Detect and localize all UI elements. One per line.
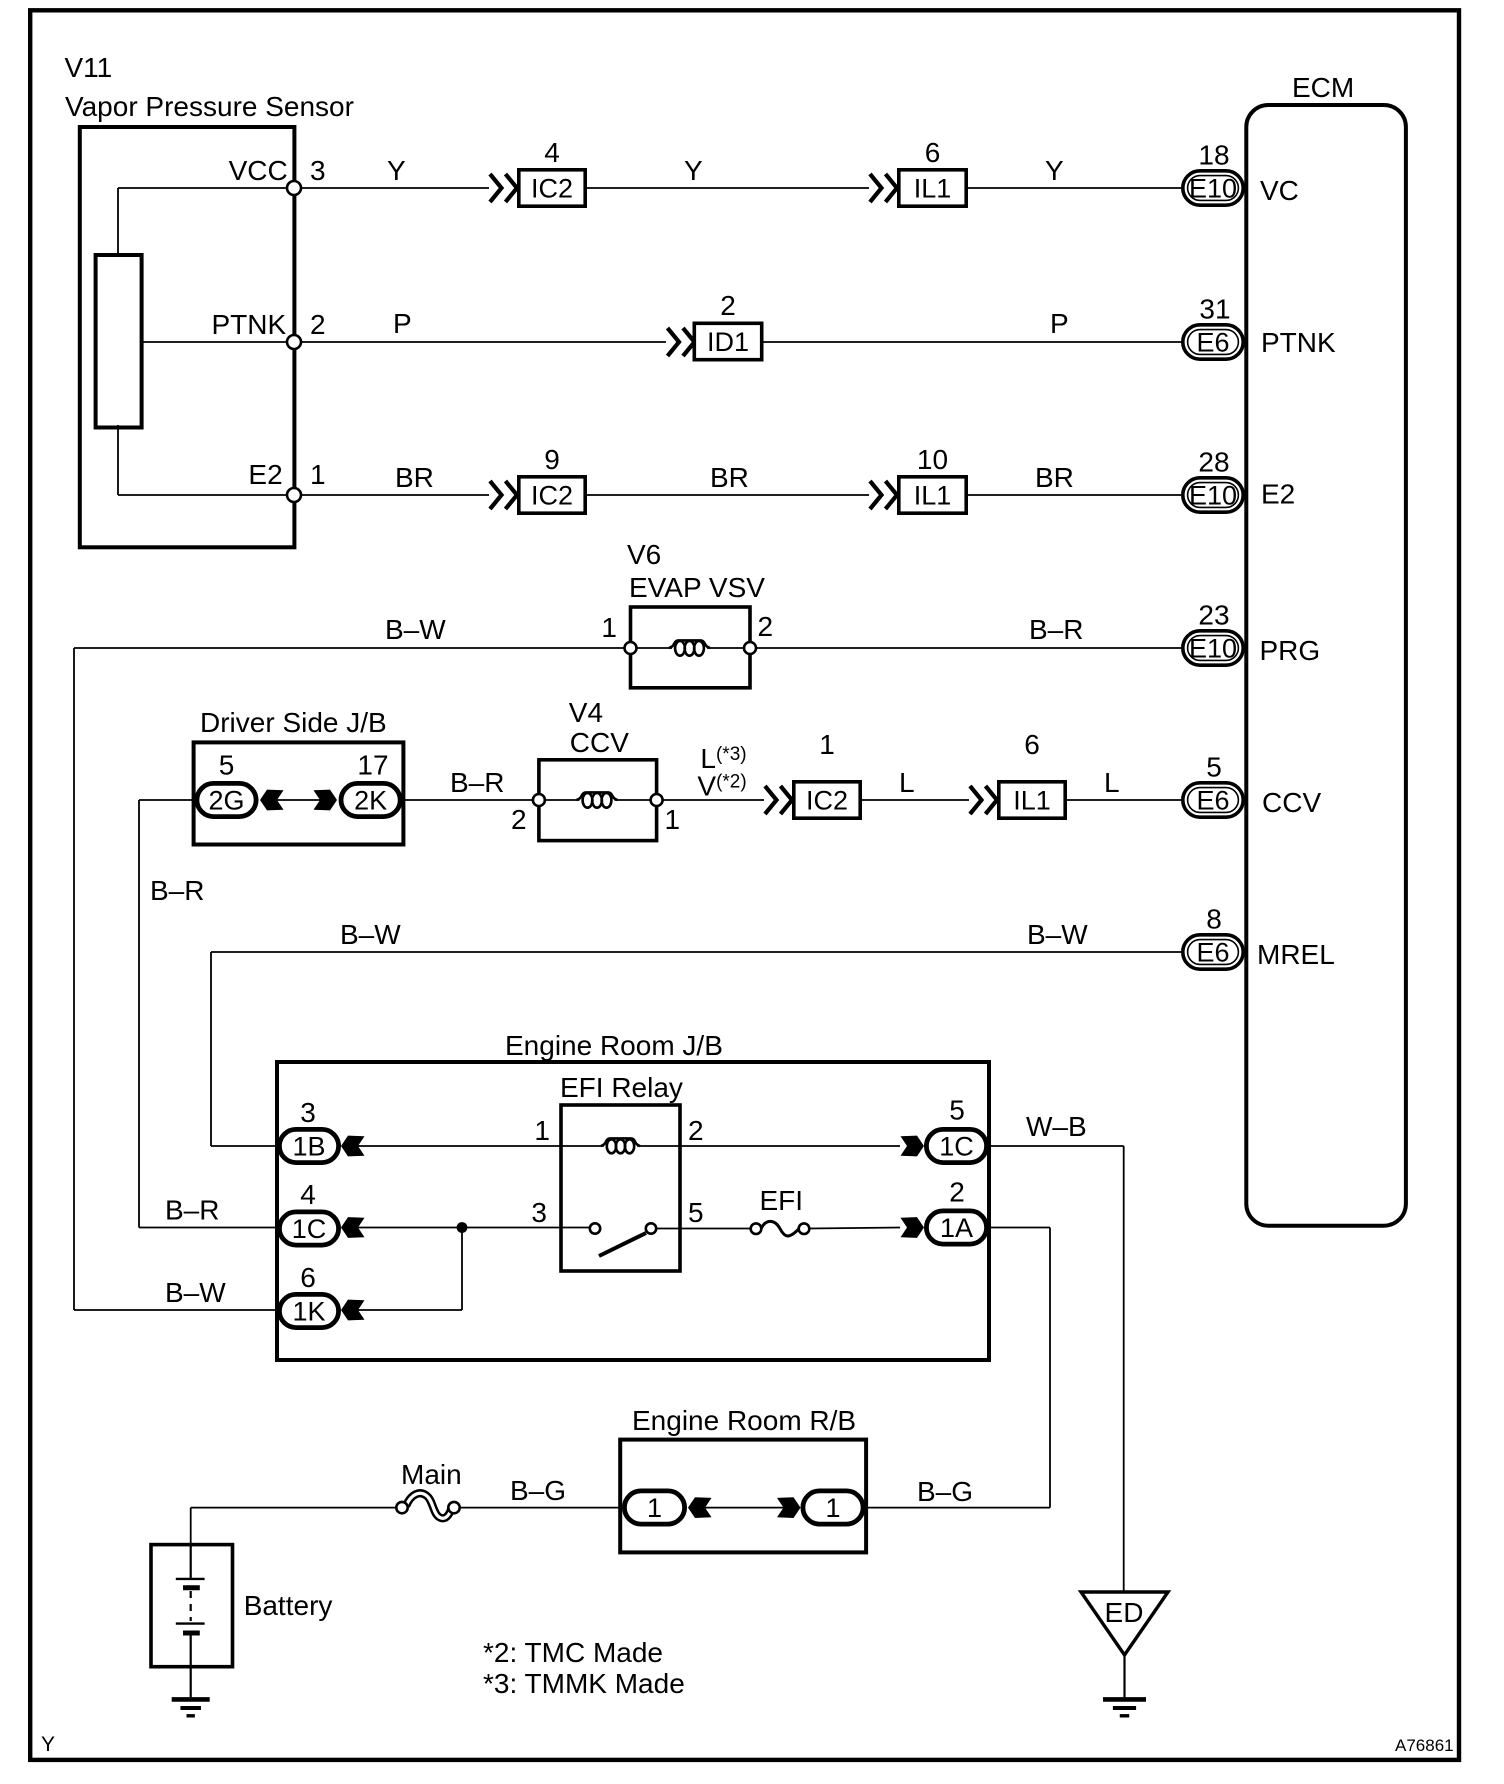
svg-text:1: 1: [825, 1493, 840, 1523]
arrow: [777, 1497, 801, 1518]
wire: [587, 494, 869, 496]
splice IL1 arrows: [870, 481, 897, 509]
svg-text:2K: 2K: [354, 786, 387, 816]
wire: [1123, 1655, 1125, 1697]
footnote *2: [483, 1637, 663, 1668]
svg-text:CCV: CCV: [1262, 787, 1321, 818]
svg-text:1: 1: [310, 459, 326, 490]
label E2: [1261, 479, 1295, 510]
wire: [358, 1227, 590, 1229]
svg-text:*3: TMMK Made: *3: TMMK Made: [483, 1668, 685, 1699]
wire: [139, 799, 195, 801]
pin 2: [720, 290, 736, 321]
svg-text:IL1: IL1: [914, 481, 952, 511]
svg-text:P: P: [1050, 308, 1069, 339]
wire: [73, 648, 75, 1310]
wire: [968, 187, 1181, 189]
label VC: [1260, 175, 1299, 206]
splice IL1 arrows: [970, 786, 997, 814]
svg-text:B–W: B–W: [385, 614, 446, 645]
svg-text:1: 1: [534, 1115, 550, 1146]
svg-text:B–R: B–R: [150, 875, 204, 906]
label B-G: [510, 1475, 566, 1506]
svg-text:A76861: A76861: [1395, 1736, 1454, 1755]
wire: [118, 425, 294, 495]
VSV V6 label: [627, 539, 765, 603]
svg-text:5: 5: [688, 1197, 704, 1228]
svg-text:B–R: B–R: [165, 1195, 219, 1226]
CCV V4 label: [569, 697, 629, 758]
wire: [587, 187, 869, 189]
label L: [899, 767, 915, 798]
wire: [809, 1228, 900, 1229]
label Y: [387, 155, 406, 186]
ED triangle: [1081, 1592, 1168, 1655]
wire: [460, 1507, 622, 1509]
pin 2: [949, 1177, 965, 1208]
svg-text:Y: Y: [41, 1733, 55, 1756]
pin 17: [357, 749, 388, 780]
svg-text:5: 5: [219, 749, 235, 780]
label P: [393, 308, 412, 339]
connector 1B: [279, 1129, 338, 1162]
wire: [358, 1309, 462, 1311]
pin 3: [310, 155, 326, 186]
svg-text:BR: BR: [395, 462, 434, 493]
wire: [142, 341, 294, 343]
label BR: [710, 462, 749, 493]
label ED: [1105, 1597, 1144, 1628]
pin 1: [819, 729, 835, 760]
pin 6: [1024, 729, 1040, 760]
node V4 pin 1: [651, 794, 663, 806]
wire: [403, 799, 539, 801]
wire: [118, 188, 294, 257]
svg-text:MREL: MREL: [1257, 939, 1335, 970]
connector IL1: [999, 782, 1065, 818]
svg-text:Y: Y: [387, 155, 406, 186]
splice IC2 arrows: [490, 481, 517, 509]
wire: [358, 1145, 561, 1147]
label VCC: [229, 155, 288, 186]
wire: [210, 952, 212, 1146]
connector E10 E2: [1183, 478, 1243, 512]
junction dot: [457, 1222, 468, 1233]
svg-text:E6: E6: [1196, 938, 1229, 968]
wire: [301, 187, 489, 189]
svg-text:IL1: IL1: [1013, 786, 1051, 816]
wire: [211, 951, 1181, 953]
connector 1C: [926, 1129, 986, 1162]
svg-text:10: 10: [917, 444, 948, 475]
label EFI: [760, 1185, 804, 1216]
svg-text:E10: E10: [1189, 481, 1237, 511]
connector 1 (left): [624, 1491, 684, 1524]
pin 10: [917, 444, 948, 475]
svg-text:B–W: B–W: [340, 919, 401, 950]
svg-text:PTNK: PTNK: [1261, 327, 1336, 358]
svg-text:23: 23: [1198, 600, 1229, 631]
CCV V4 box: [539, 760, 657, 841]
svg-text:Engine Room R/B: Engine Room R/B: [632, 1405, 856, 1436]
Engine Room J/B box: [277, 1062, 989, 1360]
svg-text:Main: Main: [401, 1459, 462, 1490]
arrow: [341, 1217, 365, 1238]
svg-text:B–R: B–R: [1029, 614, 1083, 645]
wire: [989, 1227, 1050, 1229]
wire: [989, 1145, 1124, 1147]
pin 5: [1206, 752, 1222, 783]
wire: [74, 647, 631, 649]
fuse EFI: [751, 1221, 810, 1236]
label B-R: [1029, 614, 1083, 645]
pin 18: [1198, 140, 1229, 171]
pin 2: [688, 1115, 704, 1146]
battery box: [151, 1545, 233, 1667]
svg-text:31: 31: [1199, 294, 1230, 325]
svg-text:VC: VC: [1260, 175, 1299, 206]
pin 31: [1199, 294, 1230, 325]
svg-text:28: 28: [1198, 447, 1229, 478]
svg-text:L: L: [1104, 767, 1120, 798]
EFI Relay label: [560, 1072, 683, 1103]
wire: [862, 799, 969, 801]
svg-text:Battery: Battery: [244, 1590, 333, 1621]
svg-text:1A: 1A: [940, 1213, 973, 1243]
svg-text:1K: 1K: [292, 1297, 325, 1327]
svg-text:IC2: IC2: [531, 174, 573, 204]
battery label: [244, 1590, 333, 1621]
svg-text:1: 1: [601, 612, 617, 643]
pin 3: [531, 1197, 547, 1228]
svg-text:E10: E10: [1189, 174, 1237, 204]
label PTNK: [1261, 327, 1336, 358]
wire: [705, 1507, 784, 1509]
svg-text:P: P: [393, 308, 412, 339]
label B-W: [340, 919, 401, 950]
wire: [680, 1145, 900, 1147]
wire: [74, 1309, 277, 1311]
svg-text:B–W: B–W: [165, 1277, 226, 1308]
svg-text:2: 2: [949, 1177, 965, 1208]
connector 1K: [279, 1294, 338, 1327]
VSV V6 box: [631, 607, 751, 688]
arrow: [341, 1136, 365, 1157]
pin 4: [300, 1179, 316, 1210]
Driver Side J/B box: [194, 742, 404, 844]
svg-text:2: 2: [758, 611, 774, 642]
wire: [539, 799, 657, 801]
label B-W: [165, 1277, 226, 1308]
pin 1: [601, 612, 617, 643]
arrow: [341, 1300, 365, 1321]
wire: [656, 1228, 751, 1230]
svg-text:1: 1: [819, 729, 835, 760]
page code Y: [41, 1733, 55, 1756]
label W-B: [1026, 1111, 1087, 1142]
svg-text:E2: E2: [1261, 479, 1295, 510]
label B-R: [165, 1195, 219, 1226]
svg-text:VCC: VCC: [229, 155, 288, 186]
battery dashed link: [190, 1591, 192, 1621]
svg-text:EFI Relay: EFI Relay: [560, 1072, 683, 1103]
wire: [190, 1508, 192, 1545]
connector IC2: [519, 170, 585, 206]
connector ID1: [694, 323, 761, 359]
svg-text:E6: E6: [1196, 786, 1229, 816]
svg-text:2: 2: [511, 804, 527, 835]
svg-text:E10: E10: [1189, 634, 1237, 664]
pin 1: [665, 804, 681, 835]
arrow: [688, 1497, 712, 1518]
coil V6: [669, 640, 710, 655]
pin 3: [300, 1097, 316, 1128]
svg-text:6: 6: [1024, 729, 1040, 760]
connector 2K: [341, 783, 400, 816]
svg-text:17: 17: [357, 749, 388, 780]
Driver Side J/B label: [200, 707, 387, 738]
wire: [865, 1228, 1050, 1508]
label PRG: [1260, 635, 1321, 666]
svg-text:BR: BR: [1035, 462, 1074, 493]
svg-text:IC2: IC2: [806, 786, 848, 816]
footnote *3: [483, 1668, 685, 1699]
relay contact 3: [590, 1223, 600, 1233]
pin 2: [511, 804, 527, 835]
label CCV: [1262, 787, 1321, 818]
node PTNK pin 2: [287, 335, 301, 349]
wire: [191, 1507, 397, 1509]
ECM box U1: [1246, 105, 1406, 1226]
svg-text:V11: V11: [65, 52, 113, 83]
wire: [1067, 799, 1181, 801]
svg-text:1: 1: [665, 804, 681, 835]
arrow: [901, 1136, 925, 1157]
Engine Room J/B label: [505, 1030, 723, 1061]
coil V4: [577, 792, 618, 807]
svg-text:6: 6: [300, 1262, 316, 1293]
node V4 pin 2: [533, 794, 545, 806]
node VCC pin 3: [287, 181, 301, 195]
connector IC2: [519, 477, 585, 513]
svg-text:Y: Y: [1045, 155, 1064, 186]
svg-text:CCV: CCV: [570, 727, 629, 758]
connector IL1: [899, 170, 966, 206]
svg-text:5: 5: [949, 1095, 965, 1126]
battery plate short -: [183, 1585, 200, 1590]
connector IC2: [794, 782, 860, 818]
pin 5: [949, 1095, 965, 1126]
pin 23: [1198, 600, 1229, 631]
ground ED: [1103, 1699, 1146, 1715]
svg-text:E6: E6: [1196, 328, 1229, 358]
label BR: [395, 462, 434, 493]
label Main: [401, 1459, 462, 1490]
svg-text:4: 4: [300, 1179, 316, 1210]
svg-text:IL1: IL1: [914, 174, 952, 204]
svg-text:1C: 1C: [939, 1132, 974, 1162]
svg-text:*2: TMC Made: *2: TMC Made: [483, 1637, 663, 1668]
splice ID1 arrows: [668, 328, 695, 356]
wire: [211, 1145, 277, 1147]
wire: [139, 1227, 277, 1229]
connector 1 (right): [803, 1491, 863, 1524]
arrow: [901, 1217, 925, 1238]
wire: [764, 341, 1182, 343]
label B-R: [450, 767, 504, 798]
relay contact 5: [646, 1223, 656, 1233]
pin 8: [1206, 904, 1222, 935]
doc number A76861: [1395, 1736, 1454, 1755]
svg-text:BR: BR: [710, 462, 749, 493]
pin 5: [219, 749, 235, 780]
svg-text:2: 2: [688, 1115, 704, 1146]
battery cell leads: [190, 1545, 192, 1667]
svg-text:3: 3: [310, 155, 326, 186]
label B-R: [150, 875, 204, 906]
label B-W: [385, 614, 446, 645]
wire: [301, 494, 489, 496]
wire: [301, 341, 666, 343]
connector E6 PTNK: [1183, 325, 1243, 359]
battery plate long +: [176, 1578, 205, 1580]
wire: [138, 800, 140, 1228]
ECM label: [1292, 72, 1354, 103]
svg-text:V4: V4: [569, 697, 603, 728]
connector E10 PRG: [1183, 631, 1243, 665]
connector E6 CCV: [1183, 783, 1243, 817]
connector 1C: [279, 1212, 338, 1245]
relay blade: [599, 1233, 646, 1256]
pin 1: [534, 1115, 550, 1146]
pin 5: [688, 1197, 704, 1228]
label MREL: [1257, 939, 1335, 970]
splice IL1 arrows: [870, 174, 897, 202]
svg-text:IC2: IC2: [531, 481, 573, 511]
svg-text:L: L: [899, 767, 915, 798]
node V6 pin 2: [744, 642, 756, 654]
svg-text:2: 2: [310, 309, 326, 340]
wire: [461, 1228, 463, 1311]
svg-text:B–G: B–G: [917, 1476, 973, 1507]
splice IC2 arrows: [490, 174, 517, 202]
pin 28: [1198, 447, 1229, 478]
label PTNK: [212, 309, 287, 340]
splice IC2 arrows: [765, 786, 792, 814]
svg-text:3: 3: [300, 1097, 316, 1128]
connector E10 VC: [1183, 171, 1243, 205]
node V6 pin 1: [625, 642, 637, 654]
label B-G: [917, 1476, 973, 1507]
svg-text:W–B: W–B: [1026, 1111, 1087, 1142]
label L: [1104, 767, 1120, 798]
pin 4: [544, 137, 560, 168]
svg-text:Engine Room J/B: Engine Room J/B: [505, 1030, 723, 1061]
wire: [968, 494, 1181, 496]
label Y: [684, 155, 703, 186]
label E2: [248, 459, 282, 490]
pin 2: [758, 611, 774, 642]
svg-text:1B: 1B: [292, 1132, 325, 1162]
svg-text:ECM: ECM: [1292, 72, 1354, 103]
label L(*3): [700, 743, 746, 774]
svg-text:V6: V6: [627, 539, 661, 570]
svg-text:Driver Side J/B: Driver Side J/B: [200, 707, 387, 738]
svg-text:E2: E2: [248, 459, 282, 490]
pin 6: [925, 137, 941, 168]
connector IL1: [899, 477, 966, 513]
svg-text:ID1: ID1: [707, 327, 749, 357]
svg-text:1: 1: [647, 1493, 662, 1523]
pin 6: [300, 1262, 316, 1293]
svg-text:Y: Y: [684, 155, 703, 186]
pin 1: [310, 459, 326, 490]
label P: [1050, 308, 1069, 339]
svg-text:5: 5: [1206, 752, 1222, 783]
ground (battery): [172, 1699, 210, 1715]
wire: [277, 799, 320, 801]
pin 9: [544, 444, 560, 475]
svg-text:B–G: B–G: [510, 1475, 566, 1506]
svg-text:3: 3: [531, 1197, 547, 1228]
EFI relay box: [561, 1105, 680, 1271]
wire: [561, 1145, 680, 1147]
svg-text:B–W: B–W: [1027, 919, 1088, 950]
wire: [190, 1667, 192, 1698]
svg-text:PTNK: PTNK: [212, 309, 287, 340]
label B-W: [1027, 919, 1088, 950]
svg-text:4: 4: [544, 137, 560, 168]
connector 1A: [926, 1211, 986, 1244]
svg-text:18: 18: [1198, 140, 1229, 171]
wire: [631, 647, 751, 649]
svg-text:Vapor Pressure Sensor: Vapor Pressure Sensor: [65, 91, 354, 122]
node E2 pin 1: [287, 488, 301, 502]
svg-text:EFI: EFI: [760, 1185, 804, 1216]
Engine Room R/B box: [620, 1440, 866, 1553]
fuse Main (fusible link): [396, 1493, 459, 1518]
svg-text:9: 9: [544, 444, 560, 475]
sensor V11 label: [65, 52, 354, 122]
svg-text:PRG: PRG: [1260, 635, 1321, 666]
label V(*2): [697, 771, 746, 802]
wire: [1123, 1146, 1125, 1592]
wire: [662, 799, 764, 801]
Engine Room R/B label: [632, 1405, 856, 1436]
arrow: [260, 790, 284, 811]
label BR: [1035, 462, 1074, 493]
svg-text:2: 2: [720, 290, 736, 321]
pin 2: [310, 309, 326, 340]
svg-text:6: 6: [925, 137, 941, 168]
arrow: [314, 790, 338, 811]
connector 2G: [197, 783, 256, 816]
svg-text:EVAP VSV: EVAP VSV: [629, 572, 765, 603]
battery plate long +: [176, 1622, 205, 1624]
wire: [756, 647, 1181, 649]
relay coil: [601, 1138, 640, 1153]
svg-text:1C: 1C: [292, 1214, 327, 1244]
label Y: [1045, 155, 1064, 186]
svg-text:B–R: B–R: [450, 767, 504, 798]
sensor element: [96, 255, 142, 428]
svg-text:ED: ED: [1105, 1597, 1144, 1628]
connector E6 MREL: [1183, 935, 1243, 969]
sensor V11 box: [80, 127, 295, 547]
battery plate short -: [183, 1631, 200, 1636]
svg-text:8: 8: [1206, 904, 1222, 935]
svg-text:2G: 2G: [208, 786, 244, 816]
